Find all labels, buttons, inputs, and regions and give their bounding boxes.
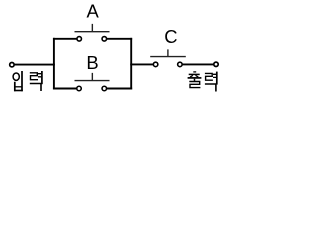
switch C left contact (153, 62, 158, 67)
terminal: output open circle (214, 62, 218, 66)
wire: top branch right segment (104, 38, 132, 40)
wire: bottom branch left segment (53, 88, 79, 90)
terminal: input open circle (10, 62, 14, 66)
label: switch B designator (86, 52, 98, 73)
svg-text:C: C (164, 26, 177, 47)
label: switch A designator (87, 1, 100, 22)
switch C right contact (178, 62, 183, 67)
wire: top branch left segment (53, 38, 79, 40)
label: output text Korean "chul-ryeok" drawn as strokes (188, 72, 217, 92)
svg-text:B: B (86, 52, 98, 73)
node: left junction vertical wire (53, 38, 55, 90)
node: right junction vertical wire (130, 38, 132, 90)
switch B actuator bar and stem (75, 73, 110, 81)
switch B right contact (102, 86, 107, 91)
switch A left contact (77, 37, 82, 42)
label: input text Korean "ip-ryeok" drawn as strokes (13, 71, 42, 91)
svg-text:A: A (87, 1, 100, 22)
wire: bottom branch right segment (104, 88, 132, 90)
switch B left contact (77, 86, 82, 91)
switch C actuator bar and stem (150, 49, 186, 56)
wire: middle segment to switch C (130, 63, 155, 65)
label: switch C designator (164, 26, 177, 47)
wire: output lead (180, 63, 214, 65)
switch A actuator bar and stem (75, 24, 110, 32)
switch A right contact (102, 37, 107, 42)
wire: input lead (12, 64, 55, 66)
